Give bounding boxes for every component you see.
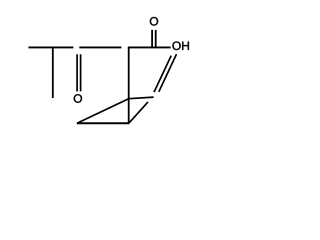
wire: bond bottom vertex to vinyl C (diagonal) xyxy=(129,102,148,123)
wire: carboxyl C=O double bond line 2 xyxy=(155,30,157,47)
wire: bond corner C down through ring C to bottom vertex xyxy=(128,47,130,124)
wire: enol C=C double bond line 1 (left) xyxy=(154,56,171,93)
wire: enol C=C double bond line 2 (right) xyxy=(159,54,177,92)
atom label O (ketone oxygen) xyxy=(74,94,82,102)
atom label O (carboxyl oxygen) xyxy=(150,17,158,25)
wire: cyclopropane hypotenuse (left vertex to ring C) xyxy=(77,99,129,123)
wire: bond ring C to vinyl C (horizontal short) xyxy=(129,97,154,99)
atom label OH (hydroxyl) xyxy=(172,42,188,50)
wire: cyclopropane bottom edge xyxy=(77,122,130,124)
wire: ketone C=O double bond line 1 xyxy=(76,54,78,91)
wire: bond C(=O)-CH2 (chain right segment) xyxy=(79,46,121,48)
wire: bond corner C to carboxyl C to OH (horizontal) xyxy=(128,46,171,48)
wire: carboxyl C=O double bond line 1 xyxy=(151,30,153,47)
wire: ketone C=O double bond line 2 xyxy=(80,54,82,91)
wire: bond CH-CH3 (methyl down) xyxy=(52,47,54,98)
wire: bond CH3-CH (chain left segment) xyxy=(28,46,73,48)
